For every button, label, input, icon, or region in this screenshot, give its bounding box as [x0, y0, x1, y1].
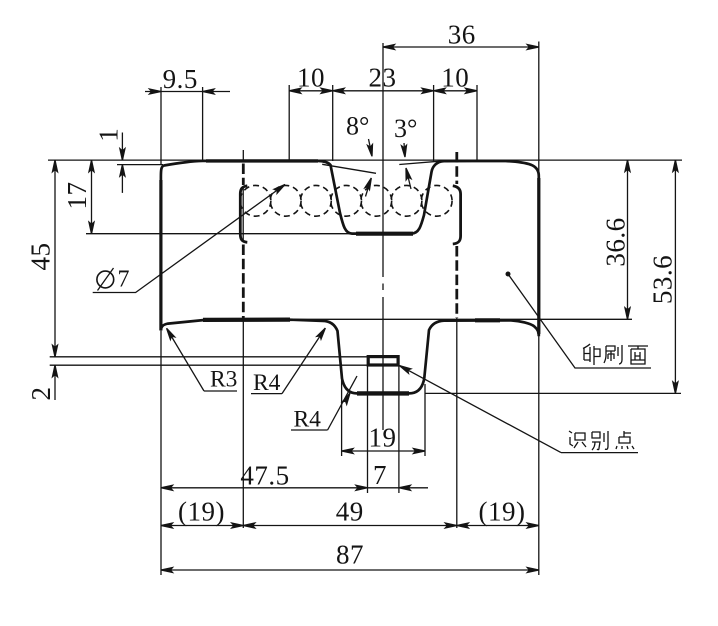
dimension 53.6	[425, 160, 681, 393]
hole circle 1	[240, 185, 271, 216]
thick edge overlay bottom right flat	[475, 318, 500, 322]
hole circle 5	[361, 185, 392, 216]
left bend line	[242, 150, 244, 161]
dimension 10 left	[289, 85, 477, 161]
svg-text:(19): (19)	[479, 497, 526, 527]
label R4 lower leader	[291, 376, 357, 430]
dimension 47.5 and 7	[161, 366, 428, 493]
svg-text:2: 2	[26, 387, 56, 401]
svg-text:7: 7	[373, 460, 387, 490]
centerline	[382, 43, 384, 277]
svg-text:36: 36	[448, 20, 476, 50]
svg-text:53.6: 53.6	[647, 255, 677, 304]
label R3 leader	[164, 327, 237, 391]
svg-text:(19): (19)	[178, 497, 225, 527]
thick edge overlay bottom left flat	[203, 318, 290, 322]
svg-text:R3: R3	[210, 367, 237, 393]
svg-text:1: 1	[94, 128, 124, 142]
part outline	[161, 161, 539, 394]
svg-text:R4: R4	[253, 370, 281, 396]
left flange bracket	[240, 186, 247, 243]
thick edge overlay notch bottom	[356, 232, 413, 236]
dimension 45	[50, 160, 368, 357]
thick edge overlay right edge	[537, 178, 540, 334]
svg-text:17: 17	[62, 182, 92, 210]
dimension 36.6	[288, 160, 632, 319]
svg-text:19: 19	[369, 423, 397, 453]
hole circle 4	[331, 185, 362, 216]
thick edge overlay left edge	[159, 180, 162, 330]
svg-text:45: 45	[26, 243, 56, 271]
hole circle 6	[391, 185, 422, 216]
svg-text:10: 10	[297, 63, 325, 93]
thick edge overlay channel bottom	[357, 391, 409, 395]
svg-text:49: 49	[336, 497, 364, 527]
svg-text:87: 87	[336, 540, 364, 570]
svg-text:23: 23	[369, 63, 397, 93]
identification tab rectangle	[368, 357, 398, 365]
dimension 87	[161, 331, 539, 575]
label identification point leader	[398, 363, 638, 452]
angle 3 degrees	[399, 143, 444, 189]
svg-text:R4: R4	[294, 407, 322, 433]
svg-text:10: 10	[441, 63, 469, 93]
label print surface leader	[506, 272, 652, 369]
hole circle 3	[301, 185, 332, 216]
dimension (19) right	[457, 523, 539, 528]
hole circle 7	[421, 185, 452, 216]
dimension 36	[383, 42, 539, 174]
svg-text:8°: 8°	[346, 112, 369, 141]
dimension 19	[342, 380, 425, 456]
dimension 2	[50, 365, 368, 400]
svg-text:36.6: 36.6	[600, 217, 630, 266]
dimension 10 right	[434, 85, 477, 161]
text print surface	[583, 344, 648, 365]
text identification point	[569, 431, 634, 450]
svg-text:47.5: 47.5	[240, 461, 289, 491]
dimension 17	[48, 160, 682, 234]
dimension 49	[243, 523, 456, 528]
svg-text:3°: 3°	[394, 114, 417, 143]
thick edge overlay top flat left	[206, 159, 318, 162]
svg-text:9.5: 9.5	[163, 64, 198, 94]
right bend line	[455, 152, 458, 184]
dimension (19) left	[161, 523, 539, 528]
dimension 1	[117, 133, 163, 193]
right flange bracket	[453, 186, 461, 244]
dimension 23	[333, 85, 434, 161]
angle 8 degrees	[322, 139, 376, 197]
label R4 upper leader	[251, 327, 327, 394]
dimension 9.5	[145, 87, 230, 164]
hole circle 2	[270, 185, 301, 216]
label diameter 7 leader	[93, 182, 287, 292]
svg-text:7: 7	[118, 267, 130, 293]
